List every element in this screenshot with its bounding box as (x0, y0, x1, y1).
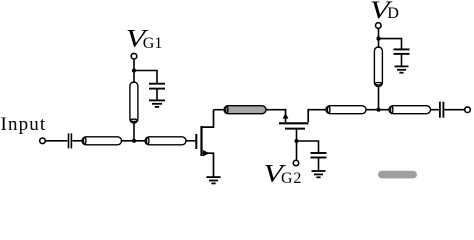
node V_G1 junction (132, 68, 136, 72)
wire V_G1 junction to bypass cap C_G1 (134, 71, 157, 84)
ground (V_D bypass) (395, 66, 409, 72)
capacitor C2 (output DC block) (440, 102, 444, 118)
capacitor C1 (input DC block) (69, 133, 72, 148)
source arrow (203, 150, 210, 156)
wire TL3 to TL4 (366, 109, 391, 111)
transmission line TL4 (389, 106, 431, 114)
transmission line TL2 (145, 137, 186, 145)
wire gate junction to V_G2 terminal (296, 141, 298, 160)
source lead (285, 109, 287, 122)
ground (V_G1 bypass) (149, 100, 165, 107)
ground (Q1 source) (206, 177, 220, 183)
gate bar (195, 134, 197, 149)
transistor Q2 (common-gate FET) (279, 109, 309, 141)
svg-text:G1: G1 (143, 35, 163, 52)
svg-text:G2: G2 (281, 170, 302, 186)
capacitor C_G1 (bypass) (149, 84, 165, 89)
wire input terminal to C1 (46, 140, 68, 142)
wire TLm to Q2 source (266, 109, 286, 111)
wire C1 to TL1 (72, 140, 83, 142)
wire TL_D to V_D terminal (378, 29, 380, 49)
channel bar (200, 126, 202, 156)
gate lead (296, 130, 298, 141)
wire C2 to output terminal (444, 109, 464, 111)
node Q2 gate junction (294, 139, 298, 143)
gate bar (285, 128, 305, 130)
ground (V_G2 bypass) (312, 171, 326, 177)
drain lead (307, 109, 309, 122)
svg-text:Input: Input (1, 114, 47, 135)
wire TL4 to C2 (431, 109, 440, 111)
input terminal (40, 138, 46, 144)
channel bar (279, 122, 309, 124)
V_G1 terminal (131, 53, 137, 59)
node drain-bias junction (376, 108, 380, 112)
V_G2 terminal (293, 160, 298, 165)
wire Q2 drain to TL3 (308, 109, 328, 111)
wire V_D junction to bypass cap C_D (379, 39, 402, 49)
source arrow (283, 113, 289, 119)
wire TL1 to TL2 (122, 140, 147, 142)
wire C_G1 to ground (156, 89, 158, 100)
node gate-bias junction (132, 139, 136, 143)
wire gate junction to C_G2 (297, 141, 319, 153)
wire C_G2 to ground (318, 158, 320, 171)
wire C_D to ground (401, 54, 403, 66)
transmission line TL1 (82, 137, 122, 145)
transmission line TLm (gray tuned interstage line) (224, 106, 266, 114)
wire TL_G1 to V_G1 terminal (133, 59, 135, 83)
capacitor C_G2 (bypass) (311, 153, 327, 158)
capacitor C_D (bypass) (394, 49, 410, 54)
output terminal (465, 107, 471, 113)
transistor Q1 (common-source FET) (196, 110, 213, 177)
legend: gray tuned-element bar (378, 171, 417, 179)
wire junction up to TL_D (378, 86, 380, 110)
svg-text:D: D (387, 5, 399, 22)
V_D terminal (376, 23, 382, 29)
source lead (202, 153, 214, 177)
wire Q1 drain to TLm (214, 109, 227, 111)
transmission line TL3 (326, 106, 366, 114)
transmission line TL_D (vertical, drain bias) (374, 47, 382, 87)
wire TL2 to Q1 gate (186, 140, 196, 142)
node V_D junction (376, 37, 380, 41)
drain lead (202, 110, 214, 127)
wire junction up to TL_G1 (133, 120, 135, 141)
transmission line TL_G1 (vertical, gate bias) (130, 82, 138, 123)
